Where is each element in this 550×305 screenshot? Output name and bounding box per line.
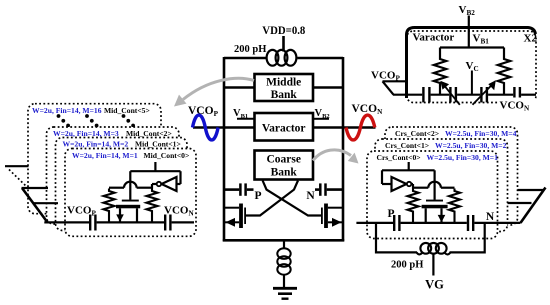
- wire upper rail: [130, 171, 180, 184]
- wire left rail: [223, 57, 226, 241]
- capacitor to VCOP: [90, 215, 95, 231]
- inductor L1 200pH (top rail): [224, 50, 343, 66]
- node VB2 (top): [459, 4, 476, 48]
- resistor right (varactor): [498, 57, 510, 95]
- cell Mid_Cont<2>: [47, 127, 180, 224]
- capacitor left tank: [240, 183, 245, 195]
- resistor right (crs cell): [449, 189, 460, 223]
- value label 200 pH (VG): [391, 260, 423, 271]
- node N: [306, 190, 315, 202]
- resistor right (cell): [147, 189, 158, 223]
- transistor M_right (cross-coupled NMOS): [321, 204, 343, 229]
- node VB1 (inner): [473, 33, 490, 46]
- wire fan line crs2: [518, 189, 545, 191]
- svg-text:200 pH: 200 pH: [391, 260, 423, 271]
- svg-text:Middle: Middle: [266, 77, 301, 89]
- svg-text:Crs_Cont<0>: Crs_Cont<0>: [377, 153, 421, 162]
- inductor 200pH (VG): [417, 243, 451, 255]
- wire middle bank right: [313, 86, 343, 89]
- wire VCON stub right: [313, 126, 376, 129]
- node VCON (center, red sine): [352, 103, 384, 116]
- svg-text:W=2.5u, Fin=30, M=1: W=2.5u, Fin=30, M=1: [427, 153, 499, 162]
- transistor switch (crs cell): [422, 200, 448, 223]
- inverter (left cell): [152, 177, 177, 191]
- svg-text:N: N: [306, 190, 315, 202]
- svg-text:Varactor: Varactor: [262, 123, 306, 135]
- wire cap line right: [315, 188, 343, 191]
- wire to ground: [283, 275, 285, 288]
- node VCOP (cell): [67, 205, 96, 218]
- wire fan line box5: [5, 165, 29, 167]
- svg-text:Crs_Cont<2>: Crs_Cont<2>: [395, 129, 439, 138]
- svg-text:200 pH: 200 pH: [234, 44, 266, 55]
- resistor left (cell): [104, 189, 115, 223]
- wire upper rail (crs): [382, 170, 435, 184]
- wire cell bottom line: [44, 221, 194, 223]
- block varactor detail box: [407, 28, 537, 103]
- svg-text:Crs_Cont<1>: Crs_Cont<1>: [385, 141, 429, 150]
- svg-text:Mid_Cont<2>: Mid_Cont<2>: [126, 129, 172, 138]
- wire cross-couple diagonal 2: [246, 181, 298, 216]
- node VC: [471, 71, 473, 95]
- block Varactor: [255, 113, 314, 141]
- svg-text:W=2u, Fin=14, M=2: W=2u, Fin=14, M=2: [63, 140, 129, 149]
- svg-text:N: N: [486, 211, 495, 223]
- wire middle bank left: [224, 86, 255, 89]
- wire VG loop: [376, 223, 485, 253]
- block Middle Bank: [255, 74, 314, 101]
- wire gate drop (crs): [434, 170, 436, 200]
- wire cap line left: [224, 188, 254, 191]
- wire gate drop: [129, 171, 131, 200]
- cell Crs_Cont<1>: [375, 139, 508, 232]
- wire fan diagonal bus (right): [521, 188, 546, 223]
- wire varactor main line: [393, 94, 536, 96]
- label Varactor: [413, 32, 455, 44]
- node VDD=0.8: [262, 25, 305, 37]
- svg-text:P: P: [254, 190, 261, 202]
- node P (crs): [387, 208, 394, 220]
- node VCOP (center, blue sine): [188, 105, 219, 118]
- svg-text:VG: VG: [425, 278, 444, 292]
- node VB2: [313, 108, 330, 120]
- callout arrow to middle bank detail: [174, 78, 254, 106]
- node VG: [425, 278, 444, 292]
- svg-text:W=2u, Fin=14, M=16: W=2u, Fin=14, M=16: [32, 106, 102, 115]
- wire cross-couple diagonal 1: [263, 181, 322, 216]
- wire fan line box2: [22, 187, 49, 189]
- wire bias rail with hop (crs): [413, 182, 455, 188]
- svg-text:W=2u, Fin=14, M=3: W=2u, Fin=14, M=3: [53, 129, 119, 138]
- cell Mid_Cont<0>: [65, 149, 196, 237]
- wire fan dotted diagonal: [9, 170, 28, 189]
- svg-text:X2: X2: [524, 33, 538, 45]
- block Coarse Bank: [255, 151, 314, 180]
- wire VG: [432, 253, 434, 275]
- label X2: [524, 33, 538, 45]
- wire tail: [283, 240, 285, 249]
- cell Crs_Cont<0>: [367, 151, 498, 239]
- node VCON (varactor box): [498, 98, 535, 113]
- ellipsis dots: [57, 114, 135, 127]
- wire fan diagonal bus: [22, 188, 48, 222]
- svg-text:Bank: Bank: [271, 167, 298, 179]
- svg-text:W=2u, Fin=14, M=1: W=2u, Fin=14, M=1: [72, 151, 138, 160]
- wire bottom rail: [223, 239, 344, 242]
- node P: [254, 190, 261, 202]
- node VCOP (varactor box, X2 fan): [371, 70, 407, 95]
- svg-text:Coarse: Coarse: [266, 154, 301, 166]
- capacitor right (varactor line): [514, 87, 520, 102]
- sine wave VCOP: [193, 115, 219, 140]
- sine wave VCON: [346, 115, 375, 140]
- varactor V2: [473, 85, 492, 105]
- callout arrow to coarse bank detail: [313, 150, 359, 164]
- svg-text:W=2.5u, Fin=30, M=2: W=2.5u, Fin=30, M=2: [435, 141, 507, 150]
- transistor M_left (cross-coupled NMOS): [224, 204, 246, 229]
- svg-text:Varactor: Varactor: [413, 32, 455, 44]
- capacitor N (crs): [468, 215, 473, 231]
- wire cell bottom line (crs): [356, 222, 520, 224]
- node VB1: [233, 108, 255, 120]
- node VCON (cell): [164, 205, 194, 218]
- svg-text:W=2.5u, Fin=30, M=4: W=2.5u, Fin=30, M=4: [445, 129, 517, 138]
- svg-text:VDD=0.8: VDD=0.8: [262, 25, 305, 37]
- svg-text:P: P: [387, 208, 394, 220]
- transistor switch (cell): [116, 200, 140, 223]
- wire fan line box1: [33, 202, 58, 204]
- capacitor left (varactor line): [423, 87, 429, 102]
- wire VCOP stub left: [193, 126, 255, 129]
- cell Crs_Cont<2>: [385, 127, 518, 225]
- cell Mid_Cont<1>: [56, 138, 188, 231]
- svg-text:Mid_Cont<1>: Mid_Cont<1>: [135, 140, 181, 149]
- capacitor to VCON: [165, 215, 170, 231]
- wire bias rail with hop: [109, 182, 152, 188]
- cell Mid_Cont<5>: [28, 104, 161, 214]
- wire bias bar: [440, 48, 504, 57]
- wire fan line crs1: [508, 202, 532, 204]
- wire control stub: [154, 162, 156, 171]
- wire VDD to inductor: [282, 36, 285, 52]
- wire right rail: [342, 57, 345, 241]
- node N (crs): [486, 211, 495, 223]
- capacitor right tank: [320, 183, 325, 195]
- resistor left (crs cell): [408, 189, 419, 223]
- varactor V1: [445, 86, 460, 105]
- value label 200 pH: [234, 44, 266, 55]
- svg-text:Mid_Cont<0>: Mid_Cont<0>: [144, 151, 190, 160]
- svg-text:Mid_Cont<5>: Mid_Cont<5>: [104, 106, 150, 115]
- inductor L_tail (vertical): [277, 248, 290, 274]
- capacitor P (crs): [394, 215, 399, 231]
- inverter (crs cell): [392, 177, 414, 191]
- svg-text:Bank: Bank: [271, 89, 298, 101]
- label VC: [466, 60, 479, 73]
- resistor left (varactor): [434, 57, 446, 95]
- wire control stub (crs): [408, 162, 410, 170]
- ground: [273, 288, 297, 298]
